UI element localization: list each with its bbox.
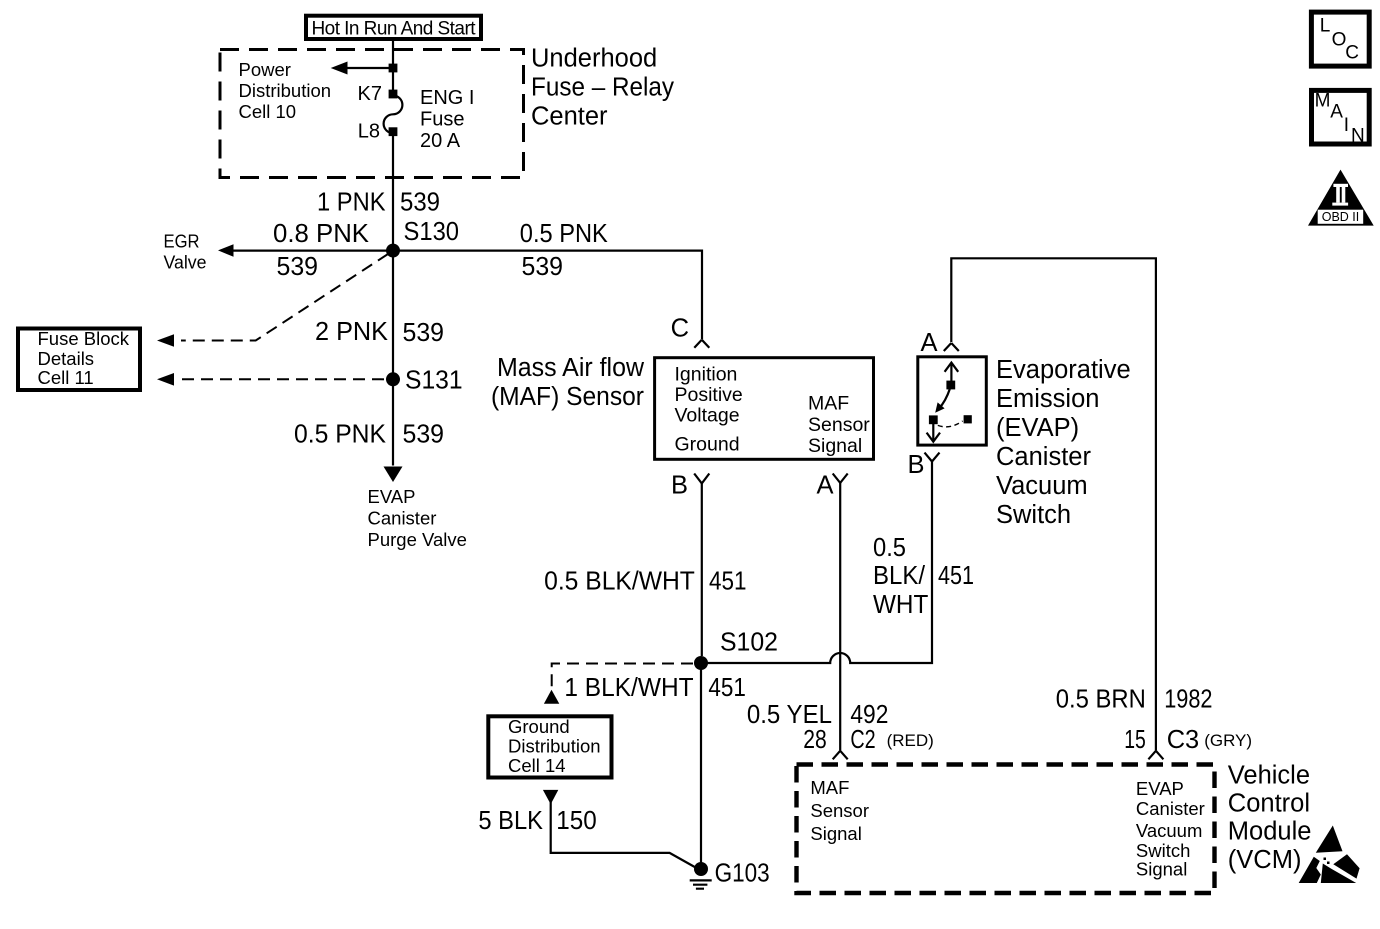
svg-text:B: B [671,472,688,500]
svg-text:WHT: WHT [873,591,928,619]
svg-text:Ignition: Ignition [675,364,738,386]
svg-text:I: I [1344,115,1349,136]
svg-text:1982: 1982 [1164,686,1212,714]
svg-text:Valve: Valve [164,252,207,273]
svg-text:0.5 BRN: 0.5 BRN [1056,686,1146,714]
svg-text:0.5: 0.5 [873,534,906,562]
svg-text:(EVAP): (EVAP) [996,414,1079,442]
svg-text:539: 539 [400,189,440,217]
svg-text:Emission: Emission [996,385,1099,413]
svg-text:0.5 PNK: 0.5 PNK [520,220,608,248]
svg-text:539: 539 [403,319,445,347]
svg-text:Fuse Block: Fuse Block [38,328,130,349]
svg-text:Ground: Ground [675,434,740,456]
svg-text:Vehicle: Vehicle [1228,762,1310,790]
svg-text:150: 150 [556,807,596,835]
svg-text:492: 492 [850,701,888,729]
svg-text:K7: K7 [358,83,382,105]
svg-text:Control: Control [1228,790,1310,818]
svg-text:Signal: Signal [1136,859,1187,880]
svg-text:Cell 10: Cell 10 [239,101,297,122]
svg-text:Positive: Positive [675,384,743,406]
svg-text:0.8 PNK: 0.8 PNK [273,220,369,248]
svg-text:A: A [921,329,938,357]
svg-text:(MAF) Sensor: (MAF) Sensor [491,383,644,411]
svg-text:Switch: Switch [996,501,1071,529]
svg-text:0.5 YEL: 0.5 YEL [747,701,832,729]
svg-text:Vacuum: Vacuum [1136,820,1203,841]
svg-text:A: A [1330,102,1343,123]
svg-text:Ground: Ground [508,716,570,737]
svg-text:5 BLK: 5 BLK [478,807,543,835]
svg-text:BLK/: BLK/ [873,562,926,590]
svg-text:ENG I: ENG I [420,87,474,109]
svg-text:MAF: MAF [810,777,849,798]
svg-text:Distribution: Distribution [239,80,332,101]
svg-text:EVAP: EVAP [368,486,416,507]
svg-text:(VCM): (VCM) [1228,846,1302,874]
svg-text:15: 15 [1124,726,1146,754]
svg-text:Voltage: Voltage [675,405,740,427]
svg-text:L8: L8 [358,121,380,143]
svg-text:0.5 BLK/WHT: 0.5 BLK/WHT [544,568,695,596]
svg-text:Cell 14: Cell 14 [508,755,566,776]
svg-text:2 PNK: 2 PNK [315,318,388,346]
svg-text:Canister: Canister [996,443,1091,471]
svg-text:451: 451 [938,562,974,590]
svg-text:1 BLK/WHT: 1 BLK/WHT [564,674,693,702]
svg-text:Cell 11: Cell 11 [38,367,94,388]
svg-text:OBD II: OBD II [1322,210,1360,224]
svg-text:EVAP: EVAP [1136,778,1184,799]
svg-text:L: L [1320,16,1331,37]
svg-text:Fuse – Relay: Fuse – Relay [531,74,674,102]
svg-text:Distribution: Distribution [508,736,601,757]
svg-text:451: 451 [708,674,746,702]
svg-text:Canister: Canister [1136,798,1205,819]
svg-text:Underhood: Underhood [531,45,657,73]
svg-text:0.5 PNK: 0.5 PNK [294,421,386,449]
svg-text:Power: Power [239,59,291,80]
svg-text:Signal: Signal [810,823,861,844]
svg-text:451: 451 [709,568,747,596]
svg-text:Signal: Signal [808,435,862,457]
svg-text:Fuse: Fuse [420,109,464,131]
svg-text:S131: S131 [405,367,463,395]
svg-text:539: 539 [522,253,564,281]
svg-text:28: 28 [803,726,827,754]
svg-text:N: N [1351,126,1365,147]
svg-text:(GRY): (GRY) [1204,731,1252,750]
svg-text:MAF: MAF [808,393,849,415]
svg-text:G103: G103 [715,860,770,888]
svg-text:(RED): (RED) [887,731,934,750]
svg-text:C3: C3 [1167,726,1200,754]
svg-text:539: 539 [403,421,445,449]
svg-text:C2: C2 [850,726,875,754]
svg-text:Hot In Run And Start: Hot In Run And Start [312,18,477,39]
svg-text:1 PNK: 1 PNK [317,189,386,217]
svg-text:Mass Air flow: Mass Air flow [497,354,645,382]
svg-text:Sensor: Sensor [808,414,870,436]
svg-text:C: C [671,315,689,343]
svg-text:Canister: Canister [368,508,437,529]
svg-text:Details: Details [38,348,95,369]
svg-text:Purge Valve: Purge Valve [368,529,467,550]
svg-text:A: A [817,472,834,500]
svg-text:B: B [908,451,925,479]
svg-text:EGR: EGR [164,231,200,252]
svg-text:Module: Module [1228,818,1312,846]
svg-text:Vacuum: Vacuum [996,472,1088,500]
svg-text:Evaporative: Evaporative [996,356,1131,384]
svg-text:S130: S130 [404,218,460,246]
svg-text:Sensor: Sensor [810,800,869,821]
svg-text:C: C [1345,43,1359,64]
svg-text:20 A: 20 A [420,130,461,152]
svg-text:S102: S102 [720,629,778,657]
svg-text:539: 539 [277,253,319,281]
svg-text:O: O [1332,30,1347,51]
svg-text:M: M [1315,91,1331,112]
svg-text:Center: Center [531,103,608,131]
